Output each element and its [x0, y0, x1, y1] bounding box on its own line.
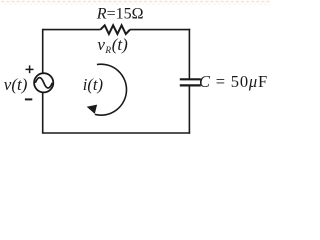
source polarity plus — [26, 65, 34, 73]
wire: left vertical above source — [42, 29, 44, 73]
wire: top-right horizontal segment — [130, 29, 190, 31]
capacitor C bottom plate — [180, 84, 201, 86]
source polarity minus — [25, 98, 32, 100]
svg-text:i(t): i(t) — [83, 75, 103, 94]
wire: top-left horizontal segment — [43, 29, 101, 31]
wire: right vertical above capacitor — [188, 29, 190, 80]
svg-text:R=15Ω: R=15Ω — [96, 5, 144, 22]
wire: bottom horizontal — [43, 132, 191, 134]
AC voltage source V1 circle — [34, 73, 53, 92]
AC source sine symbol — [35, 78, 52, 88]
wire: left vertical below source — [42, 92, 44, 133]
loop current arrowhead — [87, 105, 97, 114]
capacitor C top plate — [180, 78, 201, 80]
resistor R zigzag — [101, 25, 131, 34]
wire: right vertical below capacitor — [188, 85, 190, 133]
svg-text:C = 50μF: C = 50μF — [199, 72, 268, 91]
decorative dotted top border — [2, 1, 270, 3]
loop current arc — [95, 64, 127, 115]
svg-text:vR(t): vR(t) — [97, 35, 128, 56]
svg-text:v(t): v(t) — [4, 75, 28, 94]
